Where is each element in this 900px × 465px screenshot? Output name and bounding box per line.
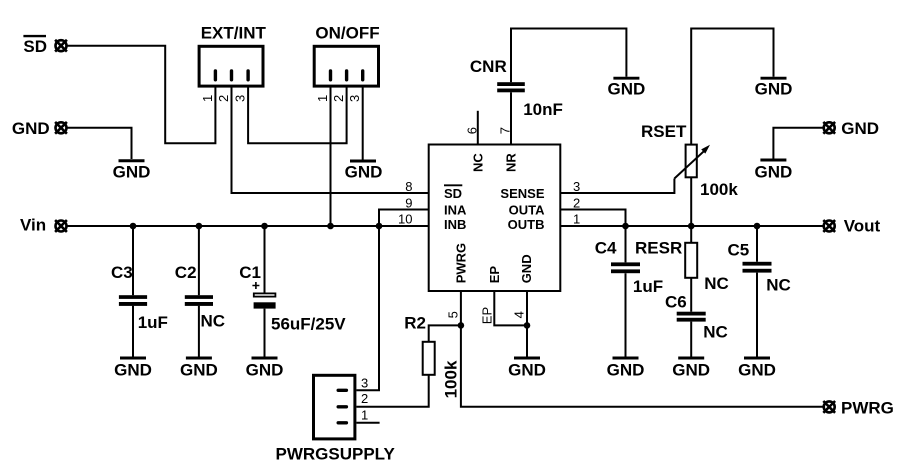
svg-text:SD: SD	[23, 37, 47, 56]
ground symbol RSET	[761, 77, 787, 80]
wire Vout rail	[560, 225, 823, 227]
svg-text:10: 10	[398, 211, 412, 226]
svg-text:GND: GND	[114, 361, 152, 380]
svg-text:PWRG: PWRG	[841, 398, 894, 417]
svg-text:C4: C4	[595, 239, 617, 258]
wire Vin branch down to PWRGSUPPLY pin 3	[356, 226, 379, 390]
svg-text:NR: NR	[504, 153, 519, 172]
wire C1 leads	[264, 226, 266, 357]
junction dot C5 on Vout rail	[754, 223, 761, 230]
capacitor C3 plates	[119, 295, 147, 306]
svg-text:C1: C1	[239, 263, 261, 282]
svg-text:R2: R2	[404, 313, 426, 332]
svg-text:C6: C6	[665, 292, 687, 311]
potentiometer RSET body	[686, 145, 697, 178]
svg-text:2: 2	[361, 391, 368, 406]
ground symbol C1	[252, 357, 278, 360]
svg-text:SENSE: SENSE	[500, 186, 544, 201]
svg-text:100k: 100k	[700, 180, 738, 199]
svg-text:ON/OFF: ON/OFF	[315, 24, 379, 43]
junction dot INA branch on Vin rail	[376, 223, 383, 230]
wire EXT/INT pin 3 to ON/OFF pin 2	[248, 87, 347, 144]
wire net SD: terminal to EXT/INT pin 1	[67, 46, 216, 144]
svg-text:INB: INB	[444, 217, 466, 232]
svg-text:2: 2	[573, 195, 580, 210]
svg-text:GND: GND	[738, 361, 776, 380]
svg-text:3: 3	[361, 376, 368, 391]
svg-text:100k: 100k	[441, 360, 460, 398]
wire CNR pin 7 lead	[510, 92, 512, 144]
ground symbol ON/OFF pin3	[350, 160, 376, 163]
capacitor CNR plates	[497, 82, 525, 92]
svg-text:EXT/INT: EXT/INT	[201, 24, 267, 43]
connector PWRGSUPPLY box	[314, 375, 355, 439]
svg-text:4: 4	[511, 311, 526, 318]
svg-text:C2: C2	[175, 263, 197, 282]
junction dot C1 on Vin rail	[261, 223, 268, 230]
svg-text:GND: GND	[755, 80, 793, 99]
wire IC pin 4 GND down to ground	[526, 291, 528, 357]
ground symbol C6	[678, 357, 704, 360]
terminal Vin	[55, 220, 67, 232]
terminal GND right	[823, 122, 835, 134]
ground symbol IC pin4	[514, 357, 540, 360]
connector ON/OFF box	[314, 46, 378, 86]
ground symbol CNR	[613, 77, 639, 80]
ground symbol right terminal	[760, 159, 786, 162]
svg-text:56uF/25V: 56uF/25V	[271, 315, 346, 334]
wire ON/OFF pin 1 to Vin rail	[330, 87, 332, 227]
svg-text:GND: GND	[841, 119, 879, 138]
resistor R2 body	[423, 342, 435, 375]
terminal PWRG	[823, 401, 835, 413]
svg-text:C5: C5	[728, 241, 750, 260]
svg-text:NC: NC	[703, 323, 728, 342]
wire PWRGSUPPLY pin 1 stub	[356, 422, 379, 424]
svg-text:3: 3	[347, 95, 362, 102]
svg-text:9: 9	[405, 195, 412, 210]
junction dot C2 on Vin rail	[196, 223, 203, 230]
capacitor C2 plates	[185, 295, 213, 306]
svg-text:NC: NC	[201, 311, 226, 330]
wire net GND left terminal to ground	[67, 128, 132, 159]
wire C6 bottom lead	[690, 322, 692, 357]
svg-text:C3: C3	[111, 263, 133, 282]
svg-text:NC: NC	[704, 274, 729, 293]
wire ON/OFF pin 3 to ground	[362, 87, 364, 160]
capacitor C1 polarized plates	[252, 282, 275, 309]
wire RESR bottom to C6 top	[690, 278, 692, 312]
svg-text:OUTA: OUTA	[509, 203, 545, 218]
connector EXT/INT box	[199, 46, 263, 86]
svg-text:GND: GND	[508, 361, 546, 380]
svg-text:2: 2	[331, 95, 346, 102]
wire Vin rail	[67, 225, 429, 227]
capacitor C6 plates	[677, 312, 706, 322]
svg-text:EP: EP	[487, 266, 502, 284]
wire EP pin down and right	[494, 291, 527, 325]
svg-text:NC: NC	[766, 275, 791, 294]
ground symbol left terminal	[119, 159, 145, 162]
svg-text:GND: GND	[246, 361, 284, 380]
capacitor C5 plates	[743, 262, 772, 273]
wire C2 leads	[198, 226, 200, 357]
wire C4 leads	[625, 226, 627, 357]
svg-text:1uF: 1uF	[138, 313, 168, 332]
svg-text:5: 5	[446, 311, 461, 318]
svg-text:GND: GND	[608, 80, 646, 99]
wire C5 leads	[756, 226, 758, 357]
wire PWRGSUPPLY pin 2 to R2 bottom	[356, 375, 428, 407]
svg-text:1: 1	[361, 408, 368, 423]
svg-text:PWRGSUPPLY: PWRGSUPPLY	[276, 445, 396, 464]
svg-text:GND: GND	[607, 361, 645, 380]
wire CNR top to ground	[511, 29, 626, 83]
svg-text:Vin: Vin	[20, 216, 46, 235]
terminal Vout	[823, 220, 835, 232]
capacitor C4 plates	[611, 262, 640, 273]
svg-text:2: 2	[216, 95, 231, 102]
wire SENSE pin 3 to RSET wiper	[560, 179, 674, 194]
svg-text:10nF: 10nF	[523, 100, 563, 119]
junction dot R2 top on pin5 wire	[458, 322, 465, 329]
svg-text:NC: NC	[470, 153, 485, 172]
junction dot RSET on Vout rail	[688, 223, 695, 230]
pin name SD with overline inside IC	[444, 185, 462, 201]
svg-text:3: 3	[573, 179, 580, 194]
op-amp regulator IC U1 box	[429, 145, 561, 292]
svg-text:INA: INA	[444, 203, 467, 218]
wire RSET bottom to Vout rail	[690, 177, 692, 226]
svg-text:8: 8	[405, 179, 412, 194]
svg-text:1uF: 1uF	[633, 277, 663, 296]
wire IC pin 6 NC stub	[477, 111, 479, 144]
svg-text:3: 3	[233, 95, 248, 102]
svg-text:CNR: CNR	[470, 57, 507, 76]
potentiometer RSET wiper arrow	[674, 150, 705, 178]
svg-text:SD: SD	[444, 186, 462, 201]
terminal GND left	[55, 122, 67, 134]
svg-text:7: 7	[498, 127, 513, 134]
svg-text:1: 1	[573, 211, 580, 226]
junction dot ON/OFF pin1 on Vin rail	[327, 223, 334, 230]
svg-text:OUTB: OUTB	[508, 217, 545, 232]
svg-text:GND: GND	[345, 162, 383, 181]
wire GND right terminal to ground	[773, 128, 822, 159]
svg-text:GND: GND	[755, 163, 793, 182]
wire RESR top lead	[690, 226, 692, 243]
ground symbol C5	[744, 357, 770, 360]
junction dot C3 on Vin rail	[130, 223, 137, 230]
terminal SD	[55, 40, 67, 52]
svg-text:6: 6	[464, 127, 479, 134]
resistor RESR body	[685, 243, 697, 278]
ground symbol C3	[120, 357, 146, 360]
wire EXT/INT pin 2 to IC pin 8	[232, 87, 429, 194]
svg-text:GND: GND	[12, 119, 50, 138]
wire R2 top to IC pin 5 net	[429, 325, 461, 341]
svg-text:GND: GND	[113, 163, 151, 182]
ground symbol C4	[613, 357, 639, 360]
svg-text:EP: EP	[479, 307, 494, 324]
svg-text:RESR: RESR	[635, 239, 682, 258]
wire C3 leads	[132, 226, 134, 357]
node SD terminal label with overline	[23, 36, 47, 56]
svg-text:1: 1	[200, 95, 215, 102]
svg-text:GND: GND	[180, 361, 218, 380]
svg-text:1: 1	[315, 95, 330, 102]
svg-text:GND: GND	[519, 254, 534, 283]
junction dot OUTA on Vout rail	[622, 223, 629, 230]
svg-text:RSET: RSET	[641, 122, 687, 141]
svg-text:PWRG: PWRG	[453, 243, 468, 283]
wire INA jog from rail to IC pin 9	[379, 210, 429, 227]
svg-text:Vout: Vout	[844, 217, 881, 236]
wire IC pin 5 PWRG down and right to PWRG terminal	[461, 291, 823, 407]
wire RSET top to ground	[691, 29, 773, 145]
junction dot EP joins pin4 wire	[524, 322, 531, 329]
wire OUTA pin 2 jog to Vout rail	[560, 210, 625, 227]
svg-text:GND: GND	[672, 361, 710, 380]
ground symbol C2	[186, 357, 212, 360]
